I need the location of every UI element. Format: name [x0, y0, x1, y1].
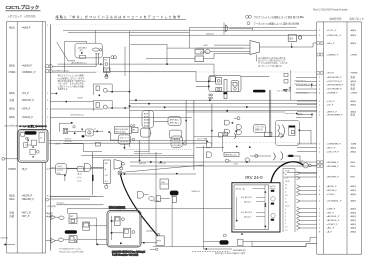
svg-text:22: 22: [285, 185, 287, 187]
svg-text:=INSTROBE_P: =INSTROBE_P: [327, 77, 343, 79]
svg-text:AB(3): AB(3): [351, 223, 357, 226]
svg-text:=REGWE_P: =REGWE_P: [327, 177, 340, 179]
svg-text:MDR & (AC)HB: MDR & (AC)HB: [115, 128, 128, 131]
svg-text:(A-a): (A-a): [78, 173, 82, 176]
svg-text:=C2[AX]_P: =C2[AX]_P: [22, 116, 34, 119]
svg-text:AB(3): AB(3): [351, 103, 357, 106]
svg-text:AB(3): AB(3): [351, 200, 357, 203]
svg-text:=O1_P: =O1_P: [22, 93, 30, 95]
svg-text:REG: REG: [351, 177, 356, 179]
svg-text:ANP (AC): ANP (AC): [170, 118, 179, 121]
svg-text:23-28: 23-28: [285, 181, 289, 183]
svg-text:=INT1_P: =INT1_P: [22, 213, 32, 215]
svg-text:40: 40: [285, 174, 287, 176]
svg-text:d0;adjust+: d0;adjust+: [56, 201, 64, 204]
svg-text:=REGWA_P: =REGWA_P: [327, 165, 340, 168]
svg-text:AGAS: AGAS: [144, 125, 150, 128]
svg-text:AB(3): AB(3): [351, 207, 357, 210]
svg-text:MDR & (k)(x): MDR & (k)(x): [115, 132, 126, 134]
svg-text:=MCV_P: =MCV_P: [327, 148, 336, 150]
svg-text:7 4: 7 4: [285, 230, 287, 232]
svg-text:=INPUT_P: =INPUT_P: [327, 112, 338, 114]
svg-text:REG: REG: [351, 162, 356, 164]
svg-text:16: 16: [285, 202, 287, 204]
svg-text:PC: PC: [104, 60, 107, 62]
svg-text:出力信号名: 出力信号名: [330, 16, 343, 20]
svg-text:AB(3): AB(3): [9, 116, 15, 119]
svg-text:2: 2: [285, 209, 286, 211]
svg-text:=REGMA_P: =REGMA_P: [327, 161, 340, 164]
svg-text:入力信号名: 入力信号名: [24, 14, 37, 18]
svg-text:ADMA: ADMA: [144, 119, 150, 122]
svg-text:AB(3): AB(3): [9, 64, 15, 67]
svg-text:1: 1: [285, 223, 286, 225]
svg-text:AB(3): AB(3): [351, 211, 357, 214]
svg-text:=INSTROBER_P: =INSTROBER_P: [327, 85, 344, 87]
svg-text:ANP (AC): ANP (AC): [170, 122, 179, 125]
svg-text:=INDUST_P: =INDUST_P: [22, 100, 35, 102]
svg-text:(MC)11 +AC: (MC)11 +AC: [236, 187, 247, 190]
svg-text:DAGMAY: DAGMAY: [173, 141, 182, 144]
svg-text:=CF_P: =CF_P: [327, 104, 334, 106]
svg-text:=ONE_P: =ONE_P: [327, 208, 336, 210]
svg-text:=ADDLUE_P: =ADDLUE_P: [327, 219, 340, 222]
svg-text:PWBM: PWBM: [351, 73, 358, 75]
svg-text:AB(3): AB(3): [351, 215, 357, 218]
svg-text:AB(3): AB(3): [351, 231, 357, 234]
svg-text:AB(3): AB(3): [9, 26, 15, 29]
svg-text:DSQUER: DSQUER: [173, 145, 182, 147]
svg-text:(1-16): (1-16): [57, 166, 62, 168]
svg-text:(1-a): (1-a): [78, 181, 82, 183]
svg-text:(1-a): (1-a): [78, 177, 82, 179]
svg-text:MEM (AC) 2-0: MEM (AC) 2-0: [225, 154, 236, 157]
svg-text:=LHLLOP_P: =LHLLOP_P: [327, 151, 340, 153]
svg-text:AOMA: AOMA: [144, 122, 151, 125]
svg-text:AB(3): AB(3): [351, 185, 357, 188]
svg-text:AB(3): AB(3): [351, 219, 357, 222]
svg-text:15-12: 15-12: [285, 206, 289, 208]
svg-text:AB(3): AB(3): [9, 92, 15, 95]
svg-text:AB(3): AB(3): [351, 100, 357, 103]
svg-text:(D): (D): [105, 181, 108, 183]
svg-text:AB(3): AB(3): [351, 111, 357, 114]
svg-text:AB(3): AB(3): [351, 42, 357, 45]
svg-text:=CMEMWB_P: =CMEMWB_P: [327, 144, 342, 146]
svg-text:CALAYE: CALAYE: [173, 138, 181, 141]
svg-text:諸略に「命令」がついているものはオペコードをデコードした信号: 諸略に「命令」がついているものはオペコードをデコードした信号: [56, 14, 182, 19]
svg-text:4: 4: [285, 213, 286, 215]
svg-text:Rev0.2 2013/4/24 Naoki Hosaka: Rev0.2 2013/4/24 Naoki Hosaka: [313, 8, 348, 11]
svg-text:出力ブロック: 出力ブロック: [350, 16, 365, 20]
svg-text:=CPA_P: =CPA_P: [22, 108, 31, 111]
svg-text:2: 2: [285, 220, 286, 222]
svg-text:A8: A8: [133, 129, 135, 132]
svg-text:=CMFILSEL_P: =CMFILSEL_P: [327, 35, 342, 37]
svg-text:REG: REG: [351, 166, 356, 168]
svg-text:21NTRQ: 21NTRQ: [1, 238, 9, 240]
svg-text:=ALL_P: =ALL_P: [327, 227, 335, 230]
svg-text:=INT_P: =INT_P: [22, 216, 30, 218]
svg-text:=A5046,P: =A5046,P: [22, 64, 33, 67]
svg-text:(21): (21): [57, 173, 61, 175]
svg-text:CE: CE: [105, 69, 109, 71]
svg-text:2-3: 2-3: [285, 178, 288, 180]
svg-text:=ADDSUL_P: =ADDSUL_P: [327, 215, 340, 218]
svg-text:=OVB_P: =OVB_P: [327, 194, 336, 196]
svg-text:AB(3): AB(3): [351, 189, 357, 192]
svg-text:10MB: 10MB: [351, 144, 357, 146]
svg-text:=CMMMIC_P: =CMMMIC_P: [22, 72, 36, 74]
svg-text:=IOWRB_P: =IOWRB_P: [327, 92, 339, 94]
svg-text:=CFSET_P: =CFSET_P: [327, 224, 339, 226]
svg-text:6: 6: [285, 192, 286, 194]
svg-text:=REGDO_P: =REGDO_P: [22, 199, 35, 201]
svg-text:AB(3): AB(3): [351, 147, 357, 150]
svg-text:NOISTEP: NOISTEP: [65, 141, 74, 143]
svg-text:PWBM: PWBM: [9, 169, 16, 171]
svg-text:5-8: 5-8: [285, 195, 288, 197]
svg-text:(17-20): (17-20): [57, 169, 63, 171]
svg-text:CHEM: CHEM: [351, 92, 358, 94]
svg-text:(AC)11 4: (AC)11 4: [244, 200, 251, 203]
svg-text:=IOSTROBE_P: =IOSTROBE_P: [327, 89, 343, 91]
svg-text:9: 9: [285, 199, 286, 201]
svg-text:AB(3): AB(3): [9, 108, 15, 111]
svg-text:CHEM: CHEM: [9, 72, 16, 74]
svg-text:AGP: AGP: [144, 113, 149, 116]
svg-text:=IOUS(AS)L_P: =IOUS(AS)L_P: [327, 200, 342, 203]
svg-text:=MCGE_P: =MCGE_P: [327, 190, 338, 192]
svg-text:=LCF_P: =LCF_P: [327, 101, 336, 103]
svg-text:=RSTROBER_P: =RSTROBER_P: [327, 114, 344, 116]
svg-text:AB(3): AB(3): [351, 34, 357, 37]
svg-text:=ADDR_P: =ADDR_P: [22, 195, 33, 198]
svg-text:INSTROB(LAM) (1: INSTROB(LAM) (1: [295, 83, 310, 86]
svg-text:=OUTPUTLS_P: =OUTPUTLS_P: [327, 81, 343, 83]
svg-text:AB(3): AB(3): [351, 80, 357, 83]
svg-text:IRV 24-0: IRV 24-0: [245, 175, 263, 180]
svg-text:AB(3): AB(3): [351, 227, 357, 230]
svg-text:AB(3): AB(3): [9, 195, 15, 198]
svg-text:21: 21: [285, 188, 287, 190]
svg-text:(>ASE): (>ASE): [55, 143, 61, 146]
svg-text:=A_P: =A_P: [327, 231, 333, 234]
svg-text:=B_P: =B_P: [22, 169, 28, 171]
svg-text:(AC)11 4: (AC)11 4: [244, 215, 251, 218]
svg-text:9dRNyo B: 9dRNyo B: [192, 191, 201, 193]
svg-text:=EGRT: =EGRT: [77, 98, 84, 100]
svg-text:AB(3): AB(3): [351, 150, 357, 153]
svg-text:=INT_P: =INT_P: [327, 212, 335, 214]
svg-text:AGS: AGS: [144, 116, 149, 119]
svg-text:=Mck_P: =Mck_P: [327, 43, 336, 45]
svg-text:1 2: 1 2: [285, 227, 287, 229]
svg-text:CHEM: CHEM: [351, 54, 358, 56]
svg-text:=IPU_P: =IPU_P: [327, 73, 335, 75]
svg-text:3: 3: [285, 216, 286, 218]
svg-text:=A606,P: =A606,P: [22, 26, 31, 29]
svg-text:=C1CP_P: =C1CP_P: [327, 30, 337, 32]
svg-text:RST: RST: [157, 241, 162, 243]
svg-text:(2: (2: [150, 133, 152, 135]
svg-text:(Reg.a): (Reg.a): [270, 188, 276, 190]
svg-text:14 R: 14 R: [234, 163, 239, 165]
svg-text:27-46: 27-46: [285, 171, 289, 173]
svg-text:AB(3): AB(3): [351, 193, 357, 196]
svg-text:C2CTLブロック: C2CTLブロック: [6, 4, 40, 11]
svg-text:=CMEND_P: =CMEND_P: [327, 54, 340, 56]
svg-text:=ABx454: =ABx454: [206, 32, 214, 35]
svg-text:=AUXE_P: =AUXE_P: [327, 185, 337, 188]
svg-text:AB(3): AB(3): [351, 29, 357, 32]
svg-text:入力ブロック: 入力ブロック: [8, 14, 23, 18]
svg-text:REG: REG: [10, 199, 15, 201]
